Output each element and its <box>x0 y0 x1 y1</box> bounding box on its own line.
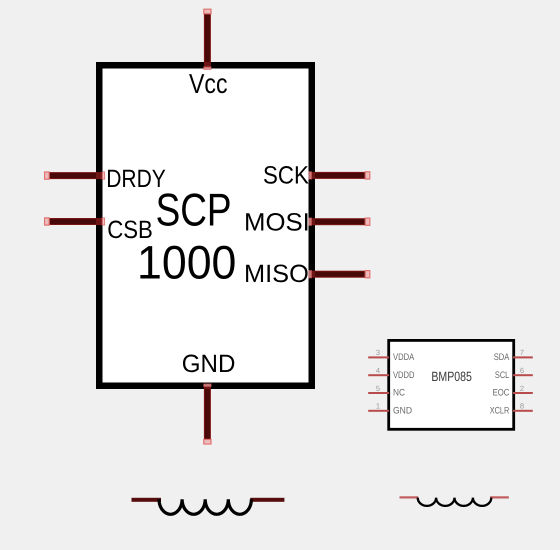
svg-text:VDDD: VDDD <box>393 370 415 381</box>
svg-text:1000: 1000 <box>137 235 236 288</box>
svg-text:7: 7 <box>520 348 524 357</box>
svg-text:SCK: SCK <box>263 161 309 189</box>
svg-text:Vcc: Vcc <box>189 68 228 99</box>
svg-text:5: 5 <box>376 384 380 393</box>
svg-text:MOSI: MOSI <box>244 208 310 236</box>
svg-text:8: 8 <box>520 402 524 411</box>
svg-text:1: 1 <box>376 402 380 411</box>
svg-text:2: 2 <box>520 384 524 393</box>
svg-text:GND: GND <box>182 350 236 378</box>
svg-text:EOC: EOC <box>493 388 510 399</box>
svg-text:SCL: SCL <box>495 370 509 381</box>
svg-text:MISO: MISO <box>244 260 309 288</box>
svg-text:GND: GND <box>393 405 412 416</box>
svg-text:BMP085: BMP085 <box>431 369 472 384</box>
svg-text:NC: NC <box>393 388 405 399</box>
svg-text:6: 6 <box>520 366 524 375</box>
svg-text:SDA: SDA <box>494 352 510 363</box>
svg-text:VDDA: VDDA <box>393 352 415 363</box>
svg-text:4: 4 <box>376 366 380 375</box>
svg-text:XCLR: XCLR <box>490 405 510 416</box>
svg-text:3: 3 <box>376 348 380 357</box>
svg-text:SCP: SCP <box>156 183 232 235</box>
